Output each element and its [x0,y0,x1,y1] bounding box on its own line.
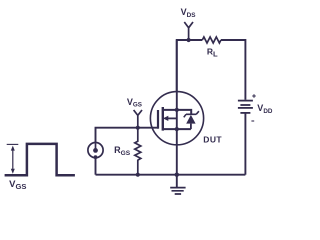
amplitude double arrow [12,149,14,171]
node VDS junction dot [187,38,191,42]
node gate junction dot [136,126,140,130]
node ground junction dot [175,173,179,177]
node drain junction dot [175,108,179,112]
current source circle [88,143,103,158]
body diode zener bar [184,111,199,117]
label RL [207,47,218,59]
node source junction dot [175,127,179,131]
mosfet drain stub [163,110,191,114]
label VDS [181,7,197,19]
wire gate rail [96,128,159,143]
node RGS bottom junction dot [136,173,140,177]
resistor RL [202,37,221,43]
wire top left: drain node to RL [177,40,203,92]
ground [176,175,178,188]
mosfet gate bar [157,110,159,129]
wire bottom rail [96,174,246,176]
label DUT [203,135,222,145]
label VDD [257,103,273,115]
battery VDD plate short bottom [240,112,250,114]
battery VDD plate long [238,107,253,109]
label VGS pulse [9,179,26,191]
battery VDD plate short [240,104,250,106]
battery plus sign [252,94,256,98]
wire drain-source axis [176,40,178,175]
battery minus sign [251,120,254,122]
mosfet channel bar [162,107,164,131]
label RGS [114,145,131,157]
pulse top reference line [7,143,19,145]
wire current source to bottom rail [95,158,97,175]
svg-text:DUT: DUT [203,135,222,145]
resistor RGS [135,128,141,175]
probe arrow VGS [134,110,142,128]
current source arrow [95,143,97,149]
DUT circle [150,92,203,145]
battery VDD plate long top [238,100,253,102]
wire RL to battery [221,40,246,100]
pulse waveform trace [5,144,75,175]
label VGS top [127,97,142,109]
probe arrow VDS [184,22,193,40]
mosfet source stub [163,128,191,130]
mosfet body arrow [168,117,177,119]
body diode triangle [186,115,195,124]
body diode anode stem [190,124,192,130]
wire battery to bottom rail [244,113,246,175]
